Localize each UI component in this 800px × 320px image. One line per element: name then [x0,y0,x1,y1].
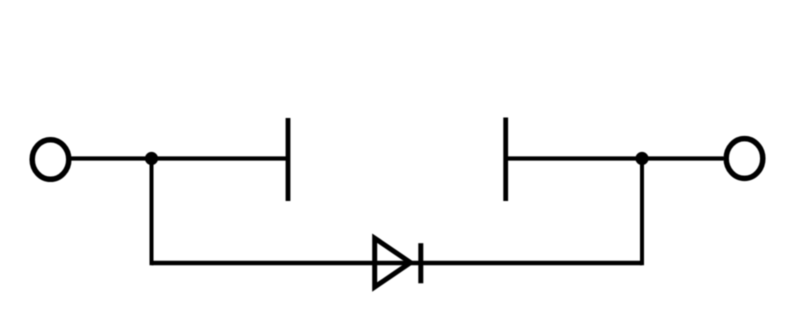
diode cathode bar [418,243,423,283]
wire: right contact to right terminal [506,156,724,160]
diode anode triangle [375,238,411,287]
junction dot (node A) [145,152,158,165]
junction dot (node B) [635,152,648,165]
wire: left terminal to left contact [70,156,288,160]
disconnect contact bar right [503,118,508,202]
terminal circle right (connection point 2) [726,139,763,179]
wire: node B drop down [640,159,644,266]
wire: node A drop down [150,159,154,266]
terminal circle left (connection point 1) [32,140,69,180]
disconnect contact bar left [286,118,291,201]
wire: bottom bypass from node A to node B [152,261,643,266]
